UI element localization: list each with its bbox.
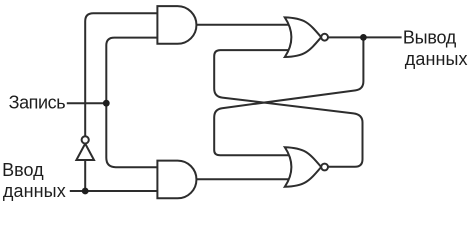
junction: Ввод данных node bbox=[82, 188, 89, 195]
wire: top NOR output to Вывод данных bbox=[327, 36, 401, 38]
AND gate bottom (write AND data) bbox=[157, 161, 196, 199]
wire: Запись junction up to top AND lower input bbox=[106, 38, 162, 104]
wire: feedback from bottom NOR output up across to top NOR lower input bbox=[214, 50, 362, 167]
AND gate top (write AND inverted data) bbox=[157, 6, 196, 44]
wire: Запись junction down to bottom AND upper input bbox=[106, 103, 162, 167]
wire: top AND output to top NOR upper input bbox=[194, 24, 292, 26]
wire: Ввод данных input to bottom AND lower input bbox=[70, 190, 162, 192]
junction: Запись node bbox=[103, 100, 110, 107]
NOR gate bottom bbox=[285, 147, 328, 187]
svg-text:данных: данных bbox=[405, 49, 468, 69]
wire: inverter input stub bbox=[84, 160, 86, 191]
wire: feedback from top NOR output junction down across to bottom NOR upper input bbox=[214, 37, 363, 155]
wire: bottom AND output to bottom NOR lower input bbox=[194, 178, 292, 180]
svg-text:Запись: Запись bbox=[9, 92, 66, 112]
label: Вывод данных bbox=[403, 27, 468, 69]
svg-text:данных: данных bbox=[3, 181, 66, 201]
svg-text:Вывод: Вывод bbox=[403, 27, 457, 47]
wire: Запись input to junction bbox=[67, 102, 107, 104]
junction: Вывод данных node bbox=[360, 34, 367, 41]
NOR gate top bbox=[285, 17, 328, 57]
label: Ввод данных bbox=[2, 160, 66, 201]
svg-text:Ввод: Ввод bbox=[2, 160, 44, 180]
wire: inverter output up to top AND upper input bbox=[85, 13, 162, 136]
inverter (NOT gate) on data line bbox=[76, 136, 94, 160]
